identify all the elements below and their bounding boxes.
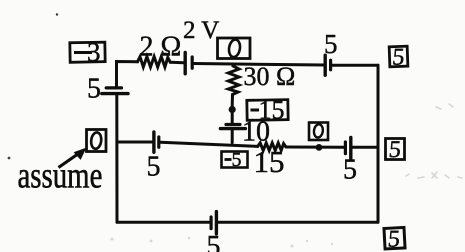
wire: left side lower (B3 to bottom corner) (115, 95, 118, 222)
wire: bottom right segment (218, 221, 378, 224)
wire: top-left segment (corner to R1) (117, 62, 138, 64)
node box: 5 (top right) (389, 46, 408, 67)
resistor R1 (2 ohm) zigzag (138, 57, 171, 67)
battery B6 (5) plates (344, 142, 347, 154)
svg-text:30 Ω: 30 Ω (244, 62, 296, 91)
node dot on middle rail (316, 144, 323, 151)
svg-text:2 V: 2 V (183, 17, 219, 44)
node box: -5 (middle rail) (222, 152, 248, 168)
wire: B5 to resistor R3 (160, 142, 257, 146)
wire: B2 to top-right corner (332, 64, 378, 67)
svg-text:5: 5 (147, 152, 161, 183)
svg-text:assume: assume (18, 155, 103, 196)
wire: node dot to battery B4 (231, 113, 234, 123)
wire: B4 to middle rail (231, 130, 234, 142)
svg-text:5: 5 (87, 74, 101, 105)
node dot on middle branch (229, 106, 236, 113)
resistor R2 (30 ohm) vertical zigzag (228, 64, 239, 94)
annotation arrow to assumed node (59, 149, 86, 168)
svg-text:5: 5 (232, 149, 242, 171)
svg-text:5: 5 (343, 155, 357, 186)
speck (8, 157, 11, 160)
battery B3 (5) plates (106, 86, 121, 89)
resistor R3 (15) zigzag (258, 143, 286, 151)
wire: bottom left segment (117, 221, 210, 224)
node box: 0 (top middle) (218, 38, 251, 59)
node box: -3 (top left) (70, 42, 105, 62)
wire: B1 to battery B2 (under node-0 box) (194, 64, 324, 66)
svg-text:15: 15 (259, 96, 285, 125)
svg-text:2 Ω: 2 Ω (140, 32, 182, 63)
speck (56, 13, 58, 15)
svg-text:3: 3 (87, 37, 101, 67)
svg-text:5: 5 (387, 227, 401, 252)
node box: 0 (middle rail right) (309, 123, 328, 141)
battery B7 (5) plates (210, 217, 213, 229)
svg-text:15: 15 (254, 144, 285, 179)
node box: 5 (middle right) (386, 139, 405, 160)
battery B1 (2 V) plates (183, 53, 186, 74)
battery B2 (5) plates (324, 55, 327, 75)
battery B4 (10) plates (226, 123, 240, 126)
wire: right side vertical (377, 65, 380, 222)
wire: B6 to right wire (352, 146, 378, 149)
svg-text:5: 5 (207, 231, 221, 252)
wire: R2 to node dot (231, 95, 234, 107)
svg-text:5: 5 (324, 29, 338, 59)
node box: -15 (middle branch) (247, 100, 288, 121)
node box: 5 (bottom right) (384, 227, 405, 249)
wire: left side upper (corner to battery B3) (115, 62, 118, 87)
svg-text:5: 5 (391, 45, 405, 71)
wire: middle rail from left wire to battery B5 (117, 141, 152, 144)
svg-text:5: 5 (388, 137, 402, 163)
wire: R1 to battery B1 (170, 61, 184, 65)
battery B5 (5) plates (152, 132, 155, 152)
node box: 0 (left, assumed node) (87, 130, 107, 152)
faint bleed-through marks right side (406, 104, 462, 178)
faint specks bottom (111, 237, 334, 248)
wire: R3 to battery B6 (through node dot) (286, 146, 344, 149)
